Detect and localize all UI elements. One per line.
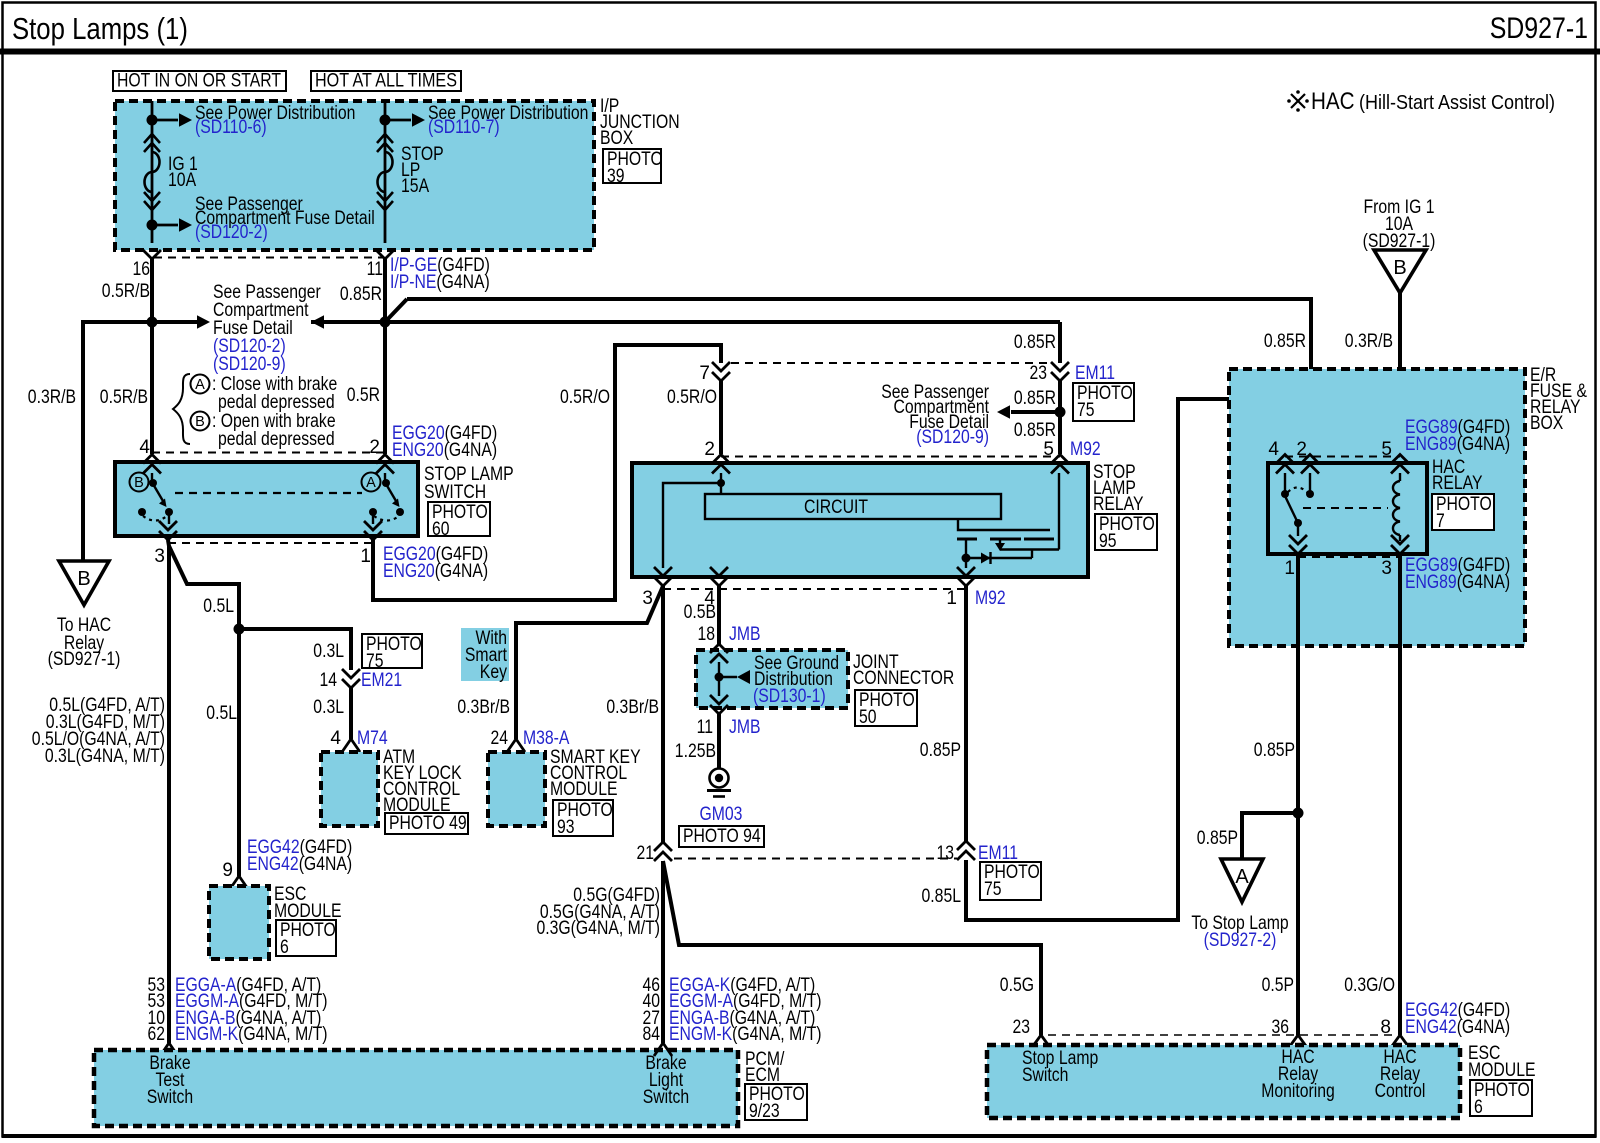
label Brake Light Switch <box>643 1053 689 1108</box>
connector pin 21 chevrons <box>654 842 672 861</box>
wire switch pin3 jog to 0.5L branch <box>169 546 239 629</box>
junction dot 0.85P <box>1293 808 1304 819</box>
HAC pin 2 entry chevrons <box>1301 455 1319 474</box>
svg-text:I/P-NE(G4NA): I/P-NE(G4NA) <box>390 272 490 293</box>
connector names EGGA-A EGGM-A ENGA-B ENGM-K <box>175 975 328 1045</box>
svg-text:Switch: Switch <box>147 1087 193 1108</box>
svg-text:ENG89(G4NA): ENG89(G4NA) <box>1405 572 1510 593</box>
label HAC Relay Control <box>1375 1047 1426 1102</box>
connector name EGG20 ENG20 top <box>392 423 497 461</box>
note A close with brake pedal depressed <box>191 374 338 413</box>
off-page connector B to HAC relay <box>59 561 109 605</box>
with smart key highlight <box>461 628 509 683</box>
svg-text:11: 11 <box>367 259 383 280</box>
ESC module box left <box>209 886 269 959</box>
svg-text:(Hill-Start Assist Control): (Hill-Start Assist Control) <box>1359 91 1555 114</box>
wire pin11 to junction row <box>383 259 387 322</box>
svg-text:1.25B: 1.25B <box>675 741 716 762</box>
svg-text:HAC: HAC <box>1311 88 1355 115</box>
label See Ground Distribution SD130-1 <box>753 653 839 707</box>
svg-text:0.85R: 0.85R <box>1264 331 1306 352</box>
svg-text:16: 16 <box>133 259 151 280</box>
svg-text:Switch: Switch <box>643 1087 689 1108</box>
svg-text:A: A <box>366 475 376 491</box>
svg-text:ENGM-K(G4NA, M/T): ENGM-K(G4NA, M/T) <box>175 1024 328 1045</box>
svg-text:(SD130-1): (SD130-1) <box>753 686 826 707</box>
switch A side mechanism <box>369 473 404 524</box>
relay pin 1 exit chevrons <box>957 567 975 586</box>
svg-text:0.85R: 0.85R <box>1014 388 1056 409</box>
HAC pin 4 entry chevrons <box>1276 455 1294 474</box>
photo ref 60 <box>428 502 490 540</box>
svg-text:EM21: EM21 <box>361 670 402 691</box>
dashed connector line ESC pins <box>1048 1034 1392 1036</box>
svg-text:0.3R/B: 0.3R/B <box>28 387 76 408</box>
svg-text:0.5L: 0.5L <box>206 703 237 724</box>
module pin chevron ESC left <box>230 876 248 889</box>
stop lamp relay box <box>632 463 1088 577</box>
svg-text:23: 23 <box>1030 363 1048 384</box>
inline connector EM11 pin 7 chevrons <box>712 362 730 381</box>
svg-text:0.3G(G4NA, M/T): 0.3G(G4NA, M/T) <box>537 918 661 939</box>
svg-text:B: B <box>134 475 144 491</box>
svg-text:A: A <box>195 377 205 393</box>
svg-text:0.3Br/B: 0.3Br/B <box>606 697 659 718</box>
svg-text:18: 18 <box>698 624 716 645</box>
connector exit pin 16 <box>143 250 161 259</box>
wire 0.85R down to HAC relay pin 2 <box>1309 297 1313 455</box>
label E/R FUSE RELAY BOX <box>1530 365 1587 434</box>
svg-text:(SD927-2): (SD927-2) <box>1204 930 1277 951</box>
svg-text:0.3L: 0.3L <box>313 641 344 662</box>
wire junction row right segment <box>311 320 385 324</box>
fuse STOP LP 15A <box>377 134 393 210</box>
svg-text:pedal depressed: pedal depressed <box>218 429 335 450</box>
svg-text:21: 21 <box>637 843 655 864</box>
dashed connector line pin7 to pin23 <box>731 362 1049 364</box>
label To Stop Lamp SD927-2 <box>1191 913 1288 951</box>
note HAC Hill-Start Assist Control with reference mark <box>1287 88 1555 115</box>
label STOP LAMP RELAY <box>1093 462 1144 515</box>
photo ref 75 EM21 <box>362 634 422 672</box>
svg-text:62: 62 <box>148 1024 166 1045</box>
wire relay pin 3 down to pin 21 <box>661 586 665 842</box>
wire mosfet to relay pin 1 <box>965 558 967 568</box>
svg-text:0.85P: 0.85P <box>920 740 961 761</box>
svg-text:0.3G/O: 0.3G/O <box>1344 975 1395 996</box>
wire 0.5L to ESC module pin 9 <box>237 629 241 876</box>
junction dot EM11 branch <box>1055 407 1066 418</box>
junction dot mosfet source <box>962 554 971 563</box>
svg-text:4: 4 <box>1268 439 1279 460</box>
photo ref 75 pin13 <box>980 862 1041 900</box>
pin numbers 53 53 10 62 <box>148 975 166 1045</box>
module pin chevron ESC 23 <box>1033 1035 1049 1046</box>
wire HAC pin 1 down to ESC pin 36 <box>1296 554 1300 1035</box>
note B open with brake pedal depressed <box>191 411 336 450</box>
HAC pin 3 exit chevrons <box>1391 535 1409 554</box>
photo ref 75 EM11 <box>1073 383 1134 421</box>
wire relay pin 3 to smart key module <box>516 586 663 739</box>
svg-text:0.3L: 0.3L <box>313 697 344 718</box>
relay pin 4 exit chevrons <box>710 567 728 586</box>
svg-text:0.5L: 0.5L <box>203 596 234 617</box>
svg-text:Switch: Switch <box>1022 1065 1068 1086</box>
svg-text:0.85P: 0.85P <box>1197 828 1238 849</box>
photo ref 6 left <box>276 920 336 958</box>
junction dot JMB <box>715 673 724 682</box>
svg-text:0.5G: 0.5G <box>1000 975 1034 996</box>
svg-text:3: 3 <box>1381 558 1392 579</box>
svg-text:93: 93 <box>557 817 575 838</box>
svg-text:0.5B: 0.5B <box>684 602 716 623</box>
svg-text:95: 95 <box>1099 531 1117 552</box>
mosfet source lead <box>965 539 967 558</box>
stop lamp switch box <box>115 462 418 536</box>
svg-text:0.85R: 0.85R <box>1014 332 1056 353</box>
JMB pin 18 entry chevrons <box>710 644 728 663</box>
connector EM11 pin 13 chevrons <box>957 841 975 860</box>
node dot at IG1 top <box>147 115 158 126</box>
wire B triangle to HAC relay pin 5 <box>1398 293 1402 455</box>
switch side label B circle <box>130 473 149 492</box>
label Stop Lamp Switch ESC <box>1022 1048 1098 1086</box>
mosfet body arrow <box>995 539 1005 551</box>
label HOT IN ON OR START <box>113 71 286 92</box>
photo ref 6 right <box>1470 1080 1532 1118</box>
fuse IG 1 10A <box>144 134 160 210</box>
svg-text:(SD120-2): (SD120-2) <box>195 222 268 243</box>
svg-text:Stop Lamps (1): Stop Lamps (1) <box>12 11 188 46</box>
E/R fuse and relay box <box>1229 369 1525 646</box>
wire 0.85R horizontal to E/R box <box>407 297 1311 301</box>
dashed connector line above HAC relay <box>1285 456 1400 458</box>
svg-text:13: 13 <box>937 843 955 864</box>
wire JMB pin 11 to ground <box>717 714 721 768</box>
wire HAC pin 3 down to ESC pin 8 <box>1398 554 1402 1035</box>
svg-text:MODULE: MODULE <box>1468 1060 1536 1081</box>
photo ref 95 <box>1095 514 1157 552</box>
dashed connector line above switch <box>152 452 385 454</box>
svg-text:8: 8 <box>1380 1017 1391 1038</box>
wire 0.85R horizontal to EM11 pin 23 <box>385 320 1060 324</box>
svg-text:24: 24 <box>491 728 509 749</box>
label JOINT CONNECTOR <box>853 652 954 689</box>
svg-text:A: A <box>1235 866 1249 888</box>
svg-text:(SD110-7): (SD110-7) <box>428 117 500 138</box>
svg-text:RELAY: RELAY <box>1432 473 1483 494</box>
svg-text:11: 11 <box>697 717 713 738</box>
svg-text:Control: Control <box>1375 1081 1426 1102</box>
HAC pin 5 entry chevrons <box>1391 455 1409 474</box>
label See Passenger Compartment Fuse Detail (SD120-2) <box>195 194 375 243</box>
module pin chevron ESC 36 <box>1290 1035 1306 1046</box>
svg-text:0.3R/B: 0.3R/B <box>1345 331 1393 352</box>
svg-text:MODULE: MODULE <box>550 779 618 800</box>
brake switch junction block box <box>94 1050 738 1126</box>
connector names EGGA-K EGGM-A ENGA-B ENGM-K <box>669 975 822 1045</box>
arrow see power distribution SD110-6 <box>152 113 192 126</box>
photo ref 9/23 <box>745 1084 807 1122</box>
label See Passenger Compartment Fuse Detail SD120-9 <box>881 382 989 448</box>
switch pin 3 exit chevrons <box>159 521 177 540</box>
svg-text:3: 3 <box>154 546 165 567</box>
svg-text:3: 3 <box>642 588 653 609</box>
svg-text:0.5P: 0.5P <box>1262 975 1294 996</box>
label I/P JUNCTION BOX <box>600 96 680 149</box>
module pin chevron M38-A <box>507 739 525 752</box>
switch pin 4 entry chevrons <box>143 455 161 474</box>
label ESC MODULE left <box>274 884 342 922</box>
label Brake Test Switch <box>147 1053 193 1108</box>
svg-text:BOX: BOX <box>600 128 634 149</box>
wire pin 21 branch to ESC pin 23 <box>663 861 1041 1035</box>
label HAC RELAY <box>1432 457 1483 494</box>
photo ref 7 <box>1432 494 1494 532</box>
svg-text:4: 4 <box>330 728 341 749</box>
svg-text:JMB: JMB <box>729 717 761 738</box>
wire pin 7 to relay pin 2 <box>719 381 723 454</box>
dashed connector line below switch <box>168 542 373 544</box>
switch pin 1 exit chevrons <box>364 521 382 540</box>
pin numbers 46 40 27 84 <box>643 975 661 1045</box>
svg-text:JMB: JMB <box>729 624 761 645</box>
wire junction to switch pin 2 <box>383 322 387 454</box>
ATM key lock control module box <box>321 752 378 826</box>
svg-text:10A: 10A <box>168 170 196 191</box>
HAC relay box <box>1268 463 1427 554</box>
dashed connector line below HAC relay <box>1298 556 1400 558</box>
HAC pin 1 exit chevrons <box>1289 535 1307 554</box>
svg-text:0.85L: 0.85L <box>922 886 962 907</box>
svg-text:ENGM-K(G4NA, M/T): ENGM-K(G4NA, M/T) <box>669 1024 822 1045</box>
wire 0.85R diagonal up from junction <box>385 299 407 322</box>
switch pin 2 entry chevrons <box>376 455 394 474</box>
connector name EGG20 ENG20 bottom <box>383 544 488 582</box>
label ESC MODULE right <box>1468 1043 1536 1081</box>
switch side label A circle <box>362 473 381 492</box>
svg-text:9: 9 <box>222 860 233 881</box>
JMB pin 11 exit chevrons <box>710 695 728 714</box>
svg-text:ENG20(G4NA): ENG20(G4NA) <box>392 440 497 461</box>
photo ref 50 <box>855 690 917 728</box>
wire relay pin 4 to JMB pin 18 <box>717 586 721 645</box>
wire pin 23 to relay pin 5 <box>1058 381 1062 454</box>
svg-text:0.3L(G4NA, M/T): 0.3L(G4NA, M/T) <box>45 746 165 767</box>
module pin chevron M74 <box>342 739 360 752</box>
svg-text:ENG42(G4NA): ENG42(G4NA) <box>1405 1017 1510 1038</box>
circuit block <box>705 494 1001 519</box>
label STOP LP 15A <box>401 144 444 197</box>
svg-text:HOT AT ALL TIMES: HOT AT ALL TIMES <box>315 71 457 92</box>
label To HAC Relay SD927-1 <box>48 615 121 670</box>
svg-text:M92: M92 <box>1070 439 1101 460</box>
svg-text:9/23: 9/23 <box>749 1101 780 1122</box>
svg-text:6: 6 <box>1474 1097 1483 1118</box>
wire internal to pin 3 <box>663 483 719 568</box>
svg-text:HOT IN ON OR START: HOT IN ON OR START <box>117 71 281 92</box>
svg-text:ENG20(G4NA): ENG20(G4NA) <box>383 561 488 582</box>
HAC relay link dashed <box>1303 507 1388 509</box>
off-page connector A to stop lamp <box>1221 859 1263 902</box>
photo ref 94 <box>679 826 764 847</box>
connector name EGG42 ENG42 left <box>247 837 352 875</box>
label PCM/ECM <box>745 1049 785 1086</box>
svg-text:M38-A: M38-A <box>523 728 570 749</box>
svg-text:50: 50 <box>859 707 877 728</box>
svg-text:BOX: BOX <box>1530 413 1564 434</box>
svg-text:GM03: GM03 <box>700 804 743 825</box>
ground GM03 symbol <box>707 769 731 797</box>
smart key control module box <box>488 752 545 826</box>
module pin chevron ESC 8 <box>1392 1035 1408 1046</box>
relay pin 3 exit chevrons <box>654 567 672 586</box>
wire pin 21 to brake light switch <box>661 861 665 1043</box>
svg-text:SWITCH: SWITCH <box>424 482 486 503</box>
svg-text:(SD120-9): (SD120-9) <box>213 354 286 375</box>
wire 0.85R down to EM11 pin 23 <box>1058 322 1062 363</box>
svg-text:0.5R/O: 0.5R/O <box>560 387 610 408</box>
svg-text:CONNECTOR: CONNECTOR <box>853 668 954 689</box>
dashed connector line pin21 to pin13 <box>674 858 957 860</box>
dashed connector line below relay <box>663 588 966 590</box>
label STOP LAMP SWITCH <box>424 464 514 503</box>
photo ref 49 <box>385 813 468 834</box>
svg-text:7: 7 <box>1436 511 1445 532</box>
relay pin 5 entry chevrons <box>1051 455 1069 474</box>
svg-text:75: 75 <box>366 651 384 672</box>
connector exit pin 11 <box>376 250 394 259</box>
junction dot relay internal <box>717 479 725 487</box>
wire switch pin3 down to brake test switch <box>168 540 169 1043</box>
connector name EGG42 ENG42 right <box>1405 1000 1510 1038</box>
svg-text:B: B <box>195 414 205 430</box>
joint connector box <box>696 650 848 708</box>
off-page connector B from IG1 <box>1374 250 1426 293</box>
wire fuse IG1 branch vertical <box>151 101 154 243</box>
wire switch pin1 to stop lamp relay pin 7 <box>373 345 721 600</box>
svg-text:2: 2 <box>369 437 380 458</box>
junction dot right <box>380 317 391 328</box>
ESC module box right <box>987 1045 1460 1118</box>
label See Power Distribution (SD110-7) <box>428 103 588 138</box>
svg-text:60: 60 <box>432 519 450 540</box>
arrow left from fuse detail note <box>311 315 324 328</box>
svg-text:0.5R: 0.5R <box>347 385 380 406</box>
wire branch to EM21 pin 14 <box>239 629 351 670</box>
arrow see passenger compartment fuse detail SD120-2 <box>152 218 192 231</box>
photo ref 39 <box>603 149 663 187</box>
svg-text:14: 14 <box>320 670 338 691</box>
wire gauge variants note left <box>32 695 165 767</box>
module pin chevron brake light switch <box>654 1043 672 1056</box>
svg-text:EM11: EM11 <box>1075 363 1115 384</box>
connector name I/P-GE I/P-NE <box>390 255 490 293</box>
I/P junction box outline <box>115 101 594 250</box>
svg-text:39: 39 <box>607 166 625 187</box>
label HAC Relay Monitoring <box>1261 1047 1335 1102</box>
wire pin16 to junction row <box>150 259 154 322</box>
label IG 1 10A <box>168 154 198 191</box>
svg-text:M74: M74 <box>357 728 388 749</box>
svg-text:B: B <box>77 568 90 590</box>
HAC relay coil <box>1393 473 1400 541</box>
svg-text:1: 1 <box>1284 558 1295 579</box>
wire gauge variants note right <box>537 885 661 939</box>
wire circuit to mosfet gate <box>958 519 1050 530</box>
svg-text:M92: M92 <box>975 588 1006 609</box>
svg-text:23: 23 <box>1013 1017 1031 1038</box>
svg-text:0.85R: 0.85R <box>340 284 382 305</box>
label ATM KEY LOCK CONTROL MODULE <box>383 747 462 816</box>
svg-text:SD927-1: SD927-1 <box>1490 12 1588 45</box>
wire fuse STOP LP branch vertical <box>384 101 387 243</box>
svg-text:0.5R/B: 0.5R/B <box>102 281 150 302</box>
svg-text:0.85R: 0.85R <box>1014 420 1056 441</box>
wire relay pin2 internal <box>720 473 722 494</box>
svg-text:2: 2 <box>704 439 715 460</box>
svg-text:75: 75 <box>984 879 1002 900</box>
photo ref 93 <box>553 800 613 838</box>
svg-text:Key: Key <box>480 662 508 683</box>
HAC relay switch internal <box>1281 473 1314 536</box>
svg-text:0.5R/B: 0.5R/B <box>100 387 148 408</box>
svg-text:15A: 15A <box>401 176 429 197</box>
svg-text:0.5R/O: 0.5R/O <box>667 387 717 408</box>
inline connector EM21 pin 14 chevrons <box>342 669 360 688</box>
thick divider line under title <box>0 49 1600 55</box>
svg-text:7: 7 <box>699 363 710 384</box>
relay pin 2 entry chevrons <box>712 455 730 474</box>
svg-text:84: 84 <box>643 1024 661 1045</box>
svg-text:1: 1 <box>360 546 371 567</box>
switch mechanical link dashed <box>175 492 362 494</box>
label HOT AT ALL TIMES <box>311 71 461 92</box>
arrow right to fuse detail note <box>197 315 210 328</box>
wire junction to switch pin 4 <box>150 322 154 454</box>
connector name EGG89 ENG89 bottom <box>1405 555 1510 593</box>
svg-text:(SD110-6): (SD110-6) <box>195 117 267 138</box>
svg-text:Monitoring: Monitoring <box>1261 1081 1335 1102</box>
wire JMB internal <box>718 662 720 696</box>
junction dot left <box>147 317 158 328</box>
svg-text:ECM: ECM <box>745 1065 780 1086</box>
svg-text:B: B <box>1393 257 1406 279</box>
inline connector EM11 pin 23 chevrons <box>1051 362 1069 381</box>
svg-text:1: 1 <box>946 588 957 609</box>
node dot at STOP LP top <box>380 115 391 126</box>
svg-text:PHOTO 94: PHOTO 94 <box>683 826 761 847</box>
node dot below fuse IG1 <box>147 220 158 231</box>
svg-text:EM11: EM11 <box>978 843 1018 864</box>
svg-text:RELAY: RELAY <box>1093 494 1144 515</box>
svg-text:36: 36 <box>1272 1017 1290 1038</box>
svg-text:(SD120-9): (SD120-9) <box>916 427 989 448</box>
dashed connector line above relay <box>721 456 1060 458</box>
wire EM11 pin 13 to HAC relay pin 4 <box>966 399 1285 920</box>
svg-text:0.85P: 0.85P <box>1254 740 1295 761</box>
svg-text:ENG42(G4NA): ENG42(G4NA) <box>247 854 352 875</box>
module pin chevron brake test switch <box>160 1043 178 1056</box>
wire EM21 to M74 pin 4 <box>349 688 353 739</box>
label SMART KEY CONTROL MODULE <box>550 747 641 800</box>
wire relay pin5 internal <box>1058 473 1060 550</box>
svg-text:(SD927-1): (SD927-1) <box>48 649 121 670</box>
brace for switch notes <box>173 374 190 444</box>
arrow see power distribution SD110-7 <box>385 113 425 126</box>
junction dot 0.5L branch <box>234 624 245 635</box>
connector name EGG89 ENG89 top <box>1405 417 1510 455</box>
